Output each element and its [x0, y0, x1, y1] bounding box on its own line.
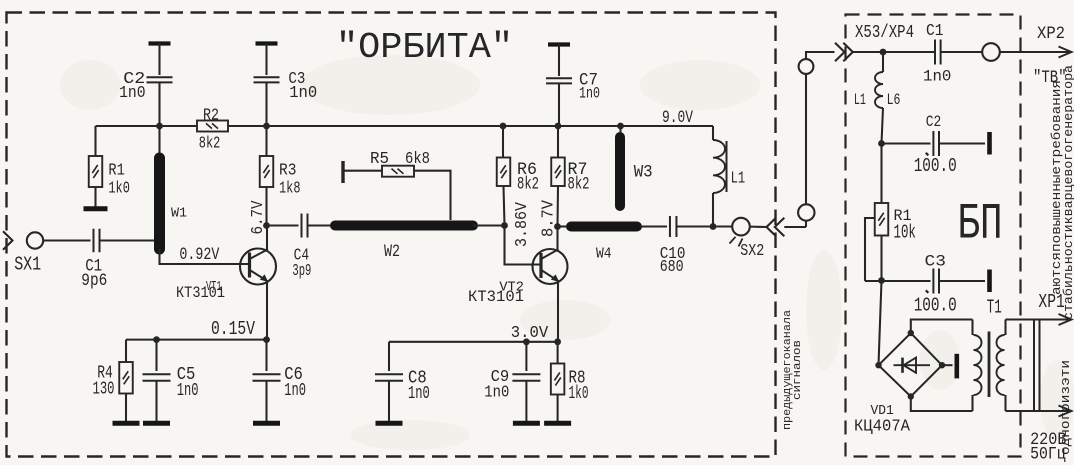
svg-text:1k0: 1k0	[569, 382, 589, 404]
svg-text:1n0: 1n0	[119, 83, 146, 102]
svg-text:3.86V: 3.86V	[512, 202, 531, 247]
svg-text:L1: L1	[854, 91, 866, 109]
svg-text:R2: R2	[203, 106, 219, 125]
svg-text:W2: W2	[384, 243, 400, 262]
svg-text:L1: L1	[731, 169, 746, 188]
svg-text:T1: T1	[987, 297, 1002, 319]
svg-text:10k: 10k	[894, 221, 916, 243]
svg-text:КЦ407А: КЦ407А	[854, 417, 911, 436]
svg-text:8k2: 8k2	[517, 175, 539, 195]
svg-text:R5: R5	[370, 149, 389, 168]
svg-text:SX2: SX2	[740, 242, 764, 261]
svg-text:130: 130	[93, 377, 115, 399]
svg-text:1k8: 1k8	[279, 178, 301, 197]
svg-text:стабильностикварцевогогенерато: стабильностикварцевогогенератора	[1061, 65, 1074, 320]
svg-text:1n0: 1n0	[923, 68, 951, 86]
svg-text:680: 680	[660, 258, 684, 277]
svg-text:одногоизэти: одногоизэти	[1058, 360, 1073, 455]
svg-text:БП: БП	[958, 195, 1003, 253]
svg-text:XP2: XP2	[1037, 25, 1065, 44]
svg-text:сигналов: сигналов	[792, 340, 804, 400]
svg-text:SX1: SX1	[14, 254, 41, 276]
svg-text:W3: W3	[634, 163, 653, 183]
svg-text:1n0: 1n0	[484, 383, 509, 402]
svg-text:W1: W1	[171, 206, 187, 222]
svg-text:X53/XP4: X53/XP4	[855, 21, 914, 43]
svg-text:1k0: 1k0	[108, 178, 129, 197]
svg-text:8.7V: 8.7V	[539, 200, 558, 237]
svg-text:6k8: 6k8	[405, 149, 430, 168]
svg-text:1n0: 1n0	[289, 83, 317, 102]
svg-text:1n0: 1n0	[408, 382, 430, 404]
svg-text:0.92V: 0.92V	[179, 246, 220, 265]
svg-text:100.0: 100.0	[914, 295, 957, 317]
svg-text:100.0: 100.0	[914, 155, 957, 177]
svg-text:1n0: 1n0	[579, 84, 600, 102]
svg-text:3.0V: 3.0V	[511, 323, 549, 342]
svg-text:L6: L6	[887, 91, 901, 109]
svg-text:9.0V: 9.0V	[662, 109, 694, 128]
svg-text:W4: W4	[596, 247, 612, 263]
svg-text:КТ3101: КТ3101	[176, 284, 225, 302]
svg-text:C3: C3	[925, 252, 946, 270]
svg-text:C1: C1	[926, 22, 944, 41]
svg-text:1n0: 1n0	[284, 380, 306, 401]
svg-text:6.7V: 6.7V	[248, 200, 267, 234]
svg-text:0.15V: 0.15V	[211, 318, 255, 340]
svg-text:R3: R3	[279, 161, 297, 180]
svg-text:R1: R1	[108, 161, 125, 180]
svg-text:КТ3101: КТ3101	[468, 288, 524, 306]
svg-text:3p9: 3p9	[292, 261, 311, 280]
svg-text:"ОРБИТА": "ОРБИТА"	[336, 27, 513, 68]
svg-text:8k2: 8k2	[199, 134, 221, 153]
svg-text:8k2: 8k2	[568, 175, 590, 195]
svg-text:C2: C2	[926, 113, 942, 131]
svg-text:1n0: 1n0	[177, 380, 199, 401]
svg-text:9p6: 9p6	[81, 272, 107, 291]
